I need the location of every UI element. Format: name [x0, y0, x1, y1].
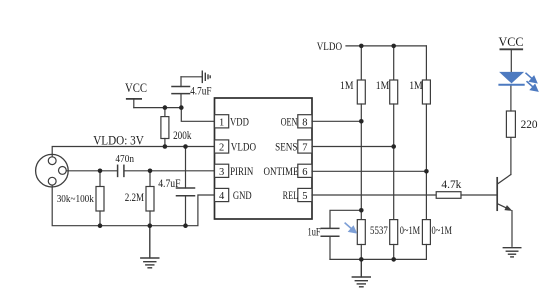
wire LED to R11	[510, 86, 512, 111]
resistor R4 1M	[357, 46, 365, 220]
wire C1 to side ground	[181, 76, 202, 78]
svg-text:4.7uF: 4.7uF	[158, 178, 180, 190]
svg-text:4.7k: 4.7k	[441, 179, 461, 191]
svg-text:1M: 1M	[376, 80, 390, 92]
capacitor C2 470n	[118, 165, 124, 176]
svg-text:VLDO: VLDO	[231, 142, 256, 154]
ground (bottom middle)	[352, 259, 370, 286]
svg-text:VCC: VCC	[499, 34, 524, 49]
svg-text:220: 220	[521, 119, 538, 131]
pin 5 box	[298, 188, 312, 201]
wire SENS	[312, 146, 394, 148]
svg-text:VDD: VDD	[230, 117, 249, 129]
pin 7 box	[298, 140, 312, 153]
svg-text:30k~100k: 30k~100k	[57, 194, 95, 205]
wire junction to IC pin1	[181, 108, 214, 122]
resistor R6 1M	[422, 46, 430, 220]
light arrow at photoresistor (blue)	[345, 223, 356, 233]
svg-text:1M: 1M	[340, 80, 354, 92]
node VLDO (top right rail)	[346, 45, 426, 47]
wire ONTIME	[312, 170, 426, 172]
svg-text:200k: 200k	[173, 130, 191, 142]
resistor R1 200k	[161, 108, 169, 147]
wire sensor ground + bottom rail	[52, 185, 214, 226]
svg-text:PIRIN: PIRIN	[230, 166, 254, 178]
capacitor C3 4.7uF (on VLDO)	[177, 147, 195, 226]
VCC supply symbol left	[127, 99, 141, 108]
svg-text:VCC: VCC	[125, 81, 147, 95]
svg-text:8: 8	[302, 118, 307, 129]
ground (sideways, top)	[202, 71, 210, 82]
svg-text:ONTIME: ONTIME	[264, 166, 299, 178]
wire REL	[312, 194, 436, 196]
pin 4 box	[215, 188, 229, 201]
svg-text:5537: 5537	[370, 225, 388, 237]
wire VCC to junctions	[134, 107, 182, 109]
photoresistor R7 5537	[357, 220, 365, 245]
capacitor C4 1uF	[321, 210, 361, 259]
resistor R5 1M	[390, 46, 398, 220]
svg-text:6: 6	[302, 167, 307, 178]
resistor R11 220	[506, 111, 515, 137]
pin 1 box	[215, 115, 229, 128]
transistor Q1	[497, 137, 512, 246]
IC pin numbers and names	[219, 117, 308, 203]
pin 2 box	[215, 140, 229, 153]
svg-text:5: 5	[302, 191, 307, 202]
LED D1 (blue)	[498, 72, 537, 91]
pin 3 box	[215, 164, 229, 177]
svg-text:7: 7	[302, 143, 307, 154]
VCC supply symbol right	[500, 49, 522, 72]
resistor R9 0~1M	[422, 220, 430, 245]
svg-text:GND: GND	[233, 190, 252, 202]
svg-text:1: 1	[219, 118, 224, 129]
resistor R2 30k~100k	[96, 171, 104, 226]
wire OEN	[312, 120, 361, 122]
wire sensor drain to VLDO rail	[52, 147, 214, 157]
wire 470n to IC pin3	[125, 170, 215, 172]
capacitor C1 4.7uF (top)	[172, 77, 190, 108]
pin 6 box	[298, 164, 312, 177]
svg-text:OEN: OEN	[281, 117, 298, 129]
svg-text:0~1M: 0~1M	[400, 225, 421, 237]
svg-text:2.2M: 2.2M	[125, 192, 144, 204]
resistor R3 2.2M	[146, 171, 154, 226]
svg-text:VLDO: 3V: VLDO: 3V	[93, 134, 144, 148]
svg-text:0~1M: 0~1M	[432, 225, 453, 237]
svg-text:4: 4	[219, 191, 225, 202]
svg-text:3: 3	[219, 167, 224, 178]
ground (bottom right, emitter)	[503, 248, 521, 257]
op-amp U1 IC body	[215, 98, 313, 219]
svg-text:470n: 470n	[115, 153, 134, 165]
transistor emitter arrowhead	[504, 205, 512, 211]
svg-text:2: 2	[219, 143, 224, 154]
PIR sensor circle	[36, 154, 69, 187]
svg-text:SENS: SENS	[275, 142, 297, 154]
svg-text:4.7uF: 4.7uF	[190, 86, 211, 98]
svg-text:REL: REL	[283, 190, 299, 202]
svg-text:1uF: 1uF	[308, 227, 321, 239]
pin 8 box	[298, 115, 312, 128]
wire bottom rail right	[330, 258, 426, 260]
resistor R8 0~1M	[390, 220, 398, 245]
resistor R10 4.7k	[436, 192, 496, 199]
wire sensor source output	[66, 170, 117, 172]
ground (bottom left)	[141, 226, 159, 268]
svg-text:1M: 1M	[409, 80, 423, 92]
svg-text:VLDO: VLDO	[317, 39, 343, 53]
